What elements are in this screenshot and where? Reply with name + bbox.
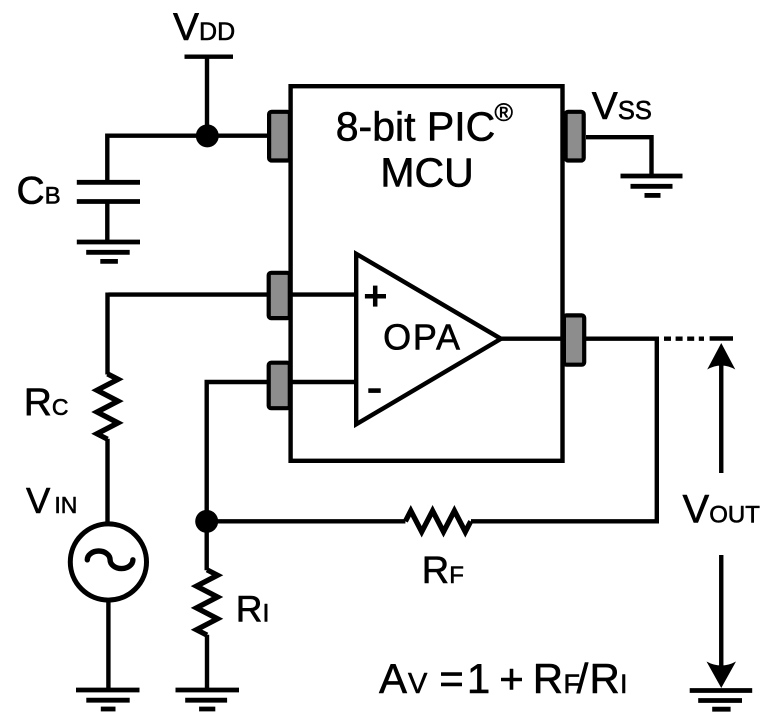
resistor RF xyxy=(405,511,470,532)
resistor RI xyxy=(197,521,218,690)
wire noninverting input xyxy=(108,292,356,296)
capacitor CB xyxy=(77,134,140,243)
op-amp OPA (U1 internal) xyxy=(356,254,501,424)
ground (CB) xyxy=(77,242,140,261)
svg-text:1: 1 xyxy=(467,655,490,702)
wire junction to RF xyxy=(207,519,406,523)
ground (RI) xyxy=(176,690,240,709)
resistor RC xyxy=(97,293,118,524)
wire dotted output extension xyxy=(664,337,704,341)
svg-text:MCU: MCU xyxy=(380,150,473,196)
label plus input xyxy=(365,286,386,307)
arrow up (VOUT) xyxy=(707,343,735,473)
label minus input xyxy=(368,388,380,393)
pin noninverting input xyxy=(269,273,290,318)
svg-text:I: I xyxy=(620,669,628,699)
node VDD junction xyxy=(196,124,219,147)
svg-text:+: + xyxy=(499,655,524,702)
ground (VOUT) xyxy=(690,691,753,710)
sine wave (VIN) xyxy=(87,551,133,569)
wire inverting input xyxy=(207,382,356,521)
svg-text:®: ® xyxy=(495,99,514,127)
svg-text:/: / xyxy=(577,655,589,702)
svg-text:R: R xyxy=(533,655,563,702)
wire VDD rail to MCU pin xyxy=(107,133,267,137)
VOUT top tick xyxy=(710,336,733,340)
pin OPA output xyxy=(564,315,584,364)
svg-text:R: R xyxy=(590,655,620,702)
power VDD symbol xyxy=(185,57,234,136)
svg-text:OPA: OPA xyxy=(383,317,462,358)
source VIN xyxy=(70,524,146,600)
wire VIN to ground xyxy=(106,600,110,690)
arrow down (VOUT) xyxy=(707,555,737,688)
svg-text:8-bit PIC: 8-bit PIC xyxy=(336,104,496,150)
pin VDD (MCU left top) xyxy=(269,112,290,161)
svg-text:V: V xyxy=(408,668,428,700)
pin VSS (MCU right top) xyxy=(566,112,584,161)
ground (VIN) xyxy=(76,690,140,709)
svg-text:A: A xyxy=(379,655,407,702)
MCU U1 box xyxy=(291,86,563,461)
wire OPA output xyxy=(471,339,657,522)
wire VSS pin to ground xyxy=(586,137,652,176)
node feedback junction xyxy=(195,510,218,533)
ground (VSS) xyxy=(621,176,683,195)
svg-text:=: = xyxy=(439,655,464,702)
pin inverting input xyxy=(269,363,290,409)
